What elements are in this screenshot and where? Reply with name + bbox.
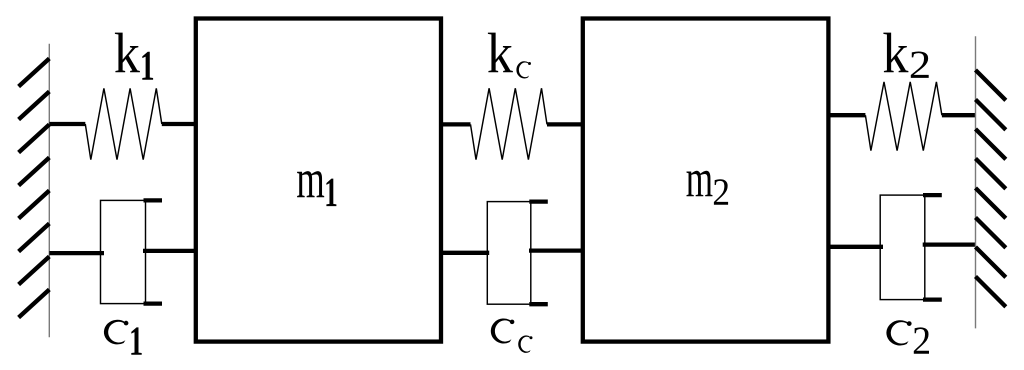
- damper c1 cylinder: [101, 200, 146, 303]
- damper cc bottom tick: [529, 302, 548, 306]
- damper cc rod left wire: [441, 251, 489, 255]
- spring kc lead right wire: [547, 122, 583, 126]
- right wall hatch 4: [976, 159, 1006, 189]
- spring kc lead left wire: [441, 122, 471, 126]
- left wall hatch 6: [19, 224, 50, 252]
- damper c2 rod right wire: [923, 242, 976, 246]
- mass m1 block: [196, 19, 441, 342]
- damper cc rod right wire: [529, 248, 583, 252]
- mass m2 block: [583, 19, 829, 342]
- label c1: [104, 320, 142, 355]
- label m1: [297, 171, 336, 206]
- label k2: [883, 33, 928, 78]
- spring k2 lead right wire: [942, 113, 976, 117]
- spring kc zigzag: [471, 88, 548, 159]
- right wall hatch 1: [976, 70, 1006, 100]
- spring k1 lead left wire: [49, 122, 85, 126]
- label k1: [115, 33, 153, 80]
- label m2: [686, 171, 728, 205]
- label cc: [491, 319, 533, 353]
- damper c2 rod left wire: [828, 245, 883, 249]
- damper c2 cylinder: [880, 195, 925, 300]
- spring k2 lead left wire: [828, 113, 865, 117]
- right wall hatch 3: [976, 129, 1006, 159]
- spring k2 zigzag: [865, 82, 942, 151]
- damper c1 rod left wire: [49, 251, 104, 255]
- left wall hatch 3: [19, 125, 50, 153]
- right wall hatch 2: [976, 100, 1006, 130]
- left wall hatch 4: [19, 158, 50, 186]
- damper cc cylinder: [487, 202, 531, 305]
- right wall hatch 6: [976, 218, 1006, 248]
- damper c1 top tick: [144, 198, 163, 202]
- left wall hatch 8: [19, 290, 50, 318]
- left wall line: [48, 44, 50, 337]
- right wall hatch 7: [976, 247, 1006, 277]
- damper cc top tick: [529, 199, 548, 203]
- label kc: [488, 33, 531, 79]
- spring k1 lead right wire: [162, 122, 196, 126]
- damper c1 rod right wire: [143, 249, 196, 253]
- left wall hatch 1: [19, 59, 50, 87]
- damper c2 bottom tick: [923, 297, 942, 301]
- left wall hatch 5: [19, 191, 50, 219]
- left wall hatch 7: [19, 257, 50, 285]
- damper c2 top tick: [923, 193, 942, 197]
- right wall line: [975, 36, 977, 328]
- left wall hatch 2: [19, 92, 50, 120]
- damper c1 bottom tick: [144, 301, 163, 305]
- right wall hatch 5: [976, 188, 1006, 218]
- spring k1 zigzag: [85, 88, 162, 159]
- right wall hatch 8: [976, 277, 1006, 307]
- label c2: [886, 320, 929, 354]
